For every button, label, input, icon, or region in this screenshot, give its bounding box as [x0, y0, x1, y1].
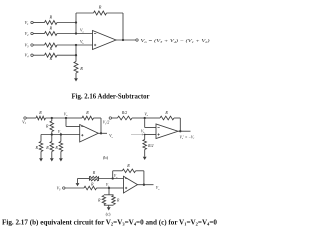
svg-text:V1: V1	[25, 20, 30, 26]
resistor R/2 input	[118, 111, 133, 120]
wire R to Va (b)	[46, 117, 67, 119]
node Va (b)	[64, 113, 68, 120]
svg-text:R: R	[45, 124, 49, 129]
resistor R (V1 input)	[45, 15, 58, 25]
input terminal V3	[25, 43, 34, 49]
svg-text:Vo​ = (V3​ + V4​) − (V1​ + V2​: Vo​ = (V3​ + V4​) − (V1​ + V2​)	[141, 38, 211, 44]
svg-text:Fig. 2.16 Adder-Subtractor: Fig. 2.16 Adder-Subtractor	[72, 92, 150, 100]
ground 3 (b)	[59, 152, 63, 162]
wire resistor to bus (row V3)	[57, 44, 76, 46]
svg-text:R: R	[126, 163, 130, 168]
resistor R to ground 2 (b)	[45, 135, 53, 152]
wire V4 to resistor	[33, 54, 44, 56]
svg-text:R: R	[92, 171, 96, 175]
wire arrow into Vb (c2)	[131, 134, 144, 136]
op-amp A (c)	[124, 176, 138, 193]
svg-text:R: R	[116, 198, 120, 202]
resistor R to ground 1 (b)	[34, 135, 42, 152]
wire feedback to output (b)	[94, 118, 102, 133]
wire resistor to bus (row V1)	[57, 22, 76, 24]
node Vb (c2)	[141, 129, 146, 135]
svg-text:R: R	[98, 5, 102, 10]
wire Vb to noninverting input (c)	[109, 187, 124, 189]
resistor R to ground 3 (b)	[54, 135, 62, 152]
svg-text:Vb: Vb	[80, 39, 84, 45]
wire output (c)	[138, 184, 154, 186]
wire R/2 to Va (c2)	[132, 117, 145, 119]
caption Fig 2.16	[72, 92, 150, 100]
svg-text:Vo​′ = −V1: Vo​′ = −V1	[180, 135, 195, 140]
wire Vb to noninverting input (c2)	[145, 134, 156, 136]
svg-text:R: R	[85, 110, 89, 115]
svg-text:R/2: R/2	[121, 111, 127, 115]
svg-text:Vo: Vo	[156, 186, 160, 191]
node Va bus	[75, 13, 85, 35]
svg-text:V2: V2	[25, 31, 30, 37]
svg-text:V3: V3	[25, 43, 30, 49]
svg-text:R/2: R/2	[147, 144, 153, 148]
label Vo (b)	[109, 133, 113, 139]
resistor R (Va to bus) (b)	[45, 118, 54, 135]
svg-text:Va: Va	[64, 113, 68, 118]
node Va (c)	[112, 174, 119, 179]
wire feedback top	[76, 12, 94, 14]
input terminal V2	[25, 31, 34, 37]
svg-text:Fig. 2.17 (b) equivalent circu: Fig. 2.17 (b) equivalent circuit for V2​…	[2, 218, 217, 226]
svg-text:R: R	[45, 145, 49, 150]
input terminal V3 (c)	[57, 186, 65, 192]
wire V1 to resistor	[33, 22, 44, 24]
wire output (c2)	[178, 130, 191, 132]
resistor R (Vb to ground)	[74, 62, 83, 74]
wire Va along top (b)	[66, 117, 82, 119]
svg-text:R: R	[48, 15, 52, 20]
input terminal V1 (b)	[22, 117, 26, 125]
wire op-amp output	[116, 39, 136, 41]
node Vb (c)	[106, 183, 110, 189]
svg-text:R: R	[164, 110, 168, 115]
svg-text:R: R	[38, 110, 42, 115]
resistor R feedback (b)	[82, 110, 94, 120]
wire Va to inverting input (b)	[66, 118, 80, 127]
svg-text:(c): (c)	[106, 211, 111, 216]
wire Vb to op-amp noninverting input	[76, 44, 93, 46]
parallel resistors R||R (c)	[89, 171, 98, 187]
svg-text:Vo: Vo	[109, 133, 113, 139]
label (c)	[106, 211, 111, 216]
resistor R (V4 input)	[45, 53, 58, 61]
svg-text:R: R	[79, 66, 83, 71]
svg-text:Va: Va	[80, 28, 84, 34]
label (b)	[103, 155, 109, 160]
resistor R input V3 (c)	[84, 186, 97, 190]
wire resistor to bus (row V4)	[57, 54, 76, 56]
resistor R feedback	[94, 5, 107, 16]
wire Va to op-amp inverting input	[76, 33, 93, 35]
wire V1/2 to R/2	[112, 117, 118, 119]
node Va (c2)	[144, 112, 149, 119]
wire resistor to bus (row V2)	[57, 33, 76, 35]
svg-text:R: R	[48, 56, 52, 61]
svg-text:V3: V3	[57, 186, 61, 192]
wire Vb down to parallel pair (c)	[108, 188, 110, 195]
wire Va up to feedback (c)	[113, 171, 123, 179]
ground (c2)	[143, 150, 147, 161]
label output equation	[141, 38, 211, 44]
op-amp A1	[93, 31, 117, 50]
ground (below Vb resistor)	[74, 73, 78, 82]
resistor R input (b)	[36, 110, 46, 120]
parallel resistors R||R to ground (c)	[97, 195, 120, 205]
resistor R (V3 input)	[45, 43, 58, 51]
wire R to Vb (c)	[97, 187, 110, 189]
wire feedback to output (c2)	[174, 118, 180, 131]
wire feedback to output (c)	[136, 171, 144, 185]
output terminal Vo	[136, 39, 138, 41]
svg-text:R: R	[97, 198, 101, 202]
resistor R/2 (Vb to ground)	[143, 135, 154, 150]
input terminal V1/2	[103, 117, 112, 125]
op-amp A (b)	[80, 125, 99, 143]
resistor R (V2 input)	[45, 26, 58, 36]
wire Va to inverting input (c2)	[145, 118, 156, 128]
wire feedback to output node	[107, 13, 124, 40]
svg-text:V1: V1	[22, 119, 26, 125]
wire V3 to R (c)	[65, 187, 84, 189]
svg-text:(b): (b)	[103, 155, 109, 160]
label Vo = -V1	[180, 135, 195, 140]
caption Fig 2.17	[2, 218, 217, 226]
wire V2 to resistor	[33, 33, 44, 35]
wire Va top (c2)	[145, 117, 160, 119]
svg-text:Vb: Vb	[141, 129, 145, 134]
svg-text:R: R	[54, 145, 58, 150]
op-amp A (c2)	[156, 124, 178, 139]
node Vb bus	[75, 39, 85, 61]
wire output (b)	[98, 132, 107, 134]
ground 1 (b)	[39, 152, 43, 162]
svg-text:R: R	[48, 26, 52, 31]
svg-text:R: R	[48, 46, 52, 51]
label Vo (c)	[156, 186, 160, 191]
svg-text:R: R	[34, 145, 38, 150]
wire parallel R to Va (c)	[99, 178, 124, 180]
node Vb bus (b)	[41, 130, 80, 135]
svg-text:V1​/2: V1​/2	[103, 121, 110, 126]
ground (below parallel pair) (c)	[107, 205, 111, 210]
svg-text:Va: Va	[144, 112, 148, 117]
ground 2 (b)	[50, 152, 54, 162]
resistor R feedback (c2)	[160, 110, 174, 120]
ground (parallel R left) (c)	[76, 179, 90, 187]
input terminal V4	[25, 53, 34, 59]
input terminal V1	[25, 20, 34, 26]
wire V1 to R (b)	[26, 117, 36, 119]
wire V3 to resistor	[33, 44, 44, 46]
resistor R feedback (c)	[122, 163, 135, 173]
svg-text:V4: V4	[25, 53, 30, 59]
